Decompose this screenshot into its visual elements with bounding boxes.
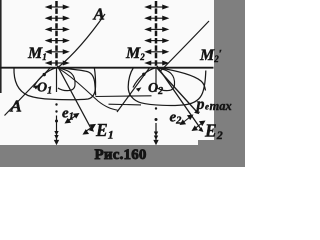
small left petal (M2) <box>133 68 157 88</box>
white figure background <box>0 0 245 167</box>
p_e max ray <box>157 68 198 113</box>
lobe-bottom line H1 <box>96 95 152 98</box>
antenna M1 current arrows <box>46 5 68 64</box>
svg-text:A: A <box>10 97 22 116</box>
E2 ray <box>157 66 201 129</box>
cross arrow 1 on E2 ray <box>181 115 193 124</box>
inner right petal (M2) <box>156 67 174 90</box>
ray A' lower-left segment (M2) <box>117 68 150 113</box>
ground line (earth surface) <box>0 67 214 69</box>
mirror current dashes below M2 <box>155 68 157 92</box>
arrowhead on ray A lower <box>33 85 39 89</box>
antenna M2 mast (dashed vertical) <box>155 1 158 67</box>
p_e max arrowhead <box>194 109 199 114</box>
mirror current dashes below M1 <box>56 68 58 92</box>
svg-text:max: max <box>210 99 232 113</box>
arrowhead on ray A' <box>136 87 142 91</box>
inner right petal (M1) <box>57 67 75 90</box>
svg-text:e: e <box>205 102 209 112</box>
E1 arrowhead <box>89 127 94 132</box>
svg-text:A: A <box>93 5 105 24</box>
svg-text:M2′: M2′ <box>199 47 222 64</box>
svg-text:Рис.160: Рис.160 <box>95 147 147 163</box>
ray A upper (from M1 base) <box>58 14 105 68</box>
point dot on ray A <box>43 73 46 76</box>
cross arrow 1 on E1 ray <box>66 114 79 123</box>
svg-text:p: p <box>195 96 205 113</box>
E2 arrowhead <box>198 127 203 132</box>
antenna M1 mast (dashed vertical) <box>55 1 58 67</box>
gray page background right <box>214 0 245 167</box>
shallow ray from M1 base <box>57 67 118 110</box>
gray page background bottom <box>0 145 245 167</box>
big left lobe arc (M2) <box>128 68 206 106</box>
ray A lower-left segment <box>5 68 51 116</box>
outer right petal (M1) <box>57 67 96 95</box>
outer right petal (M2) <box>156 67 205 90</box>
left page edge line <box>0 0 2 93</box>
antenna M2 current arrows <box>146 5 168 64</box>
gray notch under E2 <box>198 140 216 146</box>
lobe-bottom line H2 <box>109 103 142 106</box>
point dot on ray A' <box>142 73 145 76</box>
ray from M2 base to upper right <box>161 21 210 71</box>
cross arrow 2 on E1 ray <box>84 125 96 135</box>
E1 ray <box>58 66 91 128</box>
big left lobe arc (M1) <box>14 68 96 100</box>
cross arrow 2 on E2 ray <box>193 121 205 130</box>
small left petal (M1) <box>34 68 58 88</box>
